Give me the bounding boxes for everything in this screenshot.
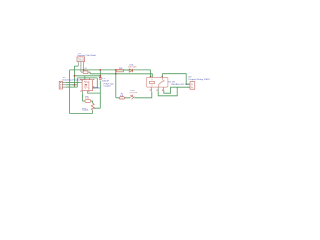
optocoupler pin numbers (80, 79, 94, 92)
svg-text:GND: GND (93, 88, 101, 90)
svg-text:10k: 10k (85, 98, 89, 100)
wire X1 pin1 (66, 82, 80, 84)
wire R4 to R5 (91, 101, 93, 103)
wire VH opto right gnd (93, 78, 98, 88)
svg-text:100k: 100k (82, 110, 88, 112)
junction dot (100.3,75.8) (99, 75, 101, 77)
junction dot (100.3,69.9) (99, 69, 101, 71)
connector X2 body (190, 82, 195, 90)
svg-text:1N4148: 1N4148 (128, 66, 136, 68)
regulator IC5 body (77, 57, 85, 62)
connector X1 body (59, 81, 62, 89)
wire bridge relay to X2 pin1 (163, 74, 190, 85)
wire bottom row W6 (116, 91, 152, 97)
svg-text:Regulator 5 Volt 100mA: Regulator 5 Volt 100mA (78, 54, 96, 57)
wire R3 leads (116, 69, 129, 71)
optocoupler pin stubs (80, 78, 95, 93)
junction dot (74.4,84.6) (74, 84, 76, 86)
wire VB gnd vertical (73, 66, 75, 87)
svg-text:Switch Input Neutral SW: Switch Input Neutral SW (62, 78, 83, 81)
wire opto bottom-left to R4 (83, 93, 85, 101)
svg-text:78L05: 78L05 (78, 58, 85, 62)
wire regulator left pin L (74, 65, 78, 67)
wire X1 pin2 (66, 84, 77, 86)
regulator pins (78, 62, 83, 72)
wire W3 (77, 77, 97, 79)
wire W4 opto pin to cap (88, 92, 101, 94)
connector X1 pin stubs (62, 83, 66, 88)
svg-text:RELAY-OUT-NC: RELAY-OUT-NC (172, 83, 190, 86)
relay pin stubs (151, 76, 164, 92)
wire left loop VA (70, 70, 93, 114)
resistor R1 body (83, 71, 88, 74)
wire X1 pin3 (66, 86, 77, 88)
resistor R2 body (119, 97, 124, 99)
junction dot (83.5,69.9) (83, 69, 85, 71)
resistor R5 zigzag (91, 103, 94, 110)
wire H2 gnd horizontal (74, 75, 100, 77)
wire X2 pin2 run (164, 87, 190, 93)
svg-text:1k: 1k (120, 95, 124, 97)
wire VC (76, 78, 78, 87)
connector X2 pin stubs (187, 84, 190, 87)
resistor R1 leads (81, 71, 91, 73)
wire VG opto top (84, 76, 86, 80)
junction dot (74.4,75.8) (74, 75, 76, 77)
wire W2 relay feed horizontal (90, 74, 152, 78)
diode D1 (129, 69, 132, 72)
svg-text:R3: R3 (119, 68, 123, 70)
resistor R3 body (116, 70, 123, 72)
wire VJ (115, 74, 117, 98)
wire bus1 +5V horizontal (70, 70, 151, 78)
svg-text:100nF: 100nF (102, 80, 110, 82)
junction dot (115.8,69.9) (115, 69, 117, 71)
optocoupler IC1 body (82, 80, 92, 91)
svg-text:+5V: +5V (84, 68, 87, 70)
svg-text:Coupler: Coupler (104, 84, 112, 87)
wire relay middle pin staircase (158, 87, 177, 96)
relay K1 body (146, 77, 168, 87)
diode D2 (130, 95, 134, 100)
wire R1 right vertical (89, 72, 91, 74)
wire cap branch VI (93, 70, 100, 108)
svg-text:Output Relay 230V: Output Relay 230V (188, 78, 210, 81)
relay pin numbers (150, 76, 163, 91)
capacitor C1 plates (99, 77, 102, 79)
svg-text:1N4148: 1N4148 (129, 92, 137, 94)
junction dot (115.8,73.8) (115, 73, 117, 75)
wire jumper bus1-W2 (115, 70, 117, 74)
resistor R4 body (85, 100, 91, 103)
